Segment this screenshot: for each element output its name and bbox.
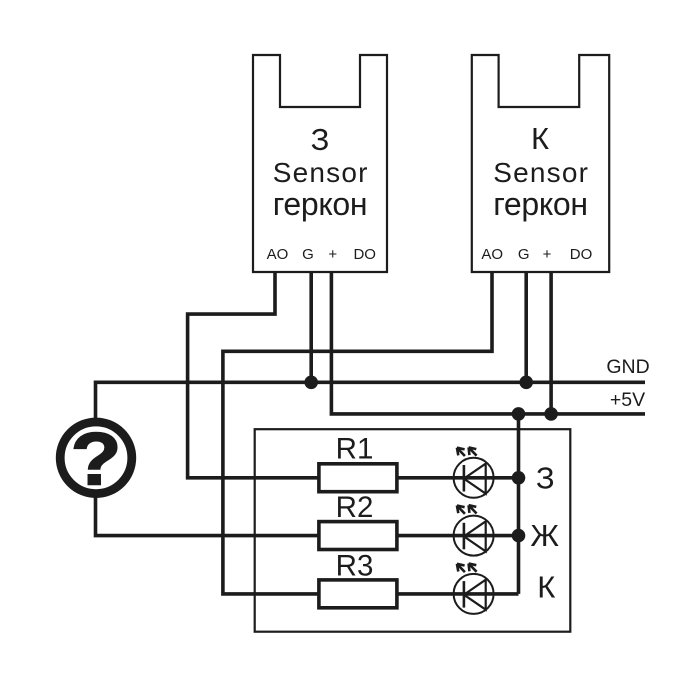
svg-text:AO: AO: [267, 246, 289, 263]
LED D3: [454, 564, 494, 614]
GND rail and drop to unknown component: [96, 382, 646, 418]
svg-text:Sensor: Sensor: [493, 157, 589, 188]
wire R2 to LED D2 to feed: [397, 534, 519, 538]
junction dot LED D2 / feed: [512, 529, 526, 543]
svg-text:R3: R3: [336, 550, 374, 583]
wire +5V feed down to LEDs: [517, 414, 521, 594]
svg-text:R2: R2: [336, 491, 374, 524]
LED board box: [255, 429, 571, 632]
wire U1 AO to resistor R1: [188, 272, 319, 478]
svg-text:геркон: геркон: [273, 186, 368, 222]
sensor U1 body (З Sensor геркон): [253, 55, 387, 272]
wire unknown component to resistor R2: [96, 498, 319, 536]
LED D1: [454, 447, 494, 497]
junction dot U1 G / GND: [304, 376, 318, 390]
wire R3 to LED D3 to feed: [397, 592, 519, 596]
svg-text:З: З: [536, 460, 555, 495]
junction dot LED feed / +5V: [512, 407, 526, 421]
svg-text:+5V: +5V: [610, 389, 645, 411]
wire U2 G down to GND rail: [524, 272, 528, 382]
junction dot U2 + / +5V: [544, 407, 558, 421]
svg-text:геркон: геркон: [493, 186, 588, 222]
svg-text:Sensor: Sensor: [273, 157, 369, 188]
LED D2: [454, 505, 494, 555]
svg-text:З: З: [311, 122, 330, 157]
svg-text:Ж: Ж: [530, 518, 559, 553]
svg-text:AO: AO: [481, 246, 503, 263]
svg-text:GND: GND: [606, 356, 649, 378]
svg-text:?: ?: [71, 418, 122, 501]
svg-text:DO: DO: [570, 246, 593, 263]
wire R1 to LED D1 to feed: [397, 476, 519, 480]
svg-text:+: +: [328, 246, 337, 263]
svg-text:G: G: [518, 246, 530, 263]
resistor R2: [319, 491, 397, 549]
resistor R3: [319, 550, 397, 608]
resistor R1: [319, 432, 397, 491]
wire U1 + down and +5V rail: [331, 272, 645, 414]
wire U2 AO to resistor R3: [223, 272, 492, 594]
sensor U2 body (К Sensor геркон): [472, 55, 609, 272]
wire U1 G down to GND rail: [309, 272, 313, 382]
junction dot U2 G / GND: [519, 376, 533, 390]
unknown component (?) circle: [60, 418, 132, 501]
svg-text:DO: DO: [353, 246, 376, 263]
junction dot LED D1 / feed: [512, 471, 526, 485]
svg-text:К: К: [531, 121, 549, 156]
svg-text:G: G: [302, 246, 314, 263]
svg-text:+: +: [543, 246, 552, 263]
svg-text:К: К: [537, 570, 555, 605]
svg-text:R1: R1: [336, 432, 374, 465]
wire U2 + down to +5V rail: [549, 272, 553, 414]
